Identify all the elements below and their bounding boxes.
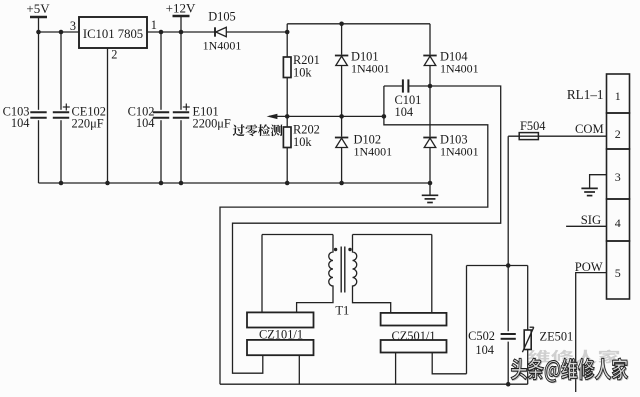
transformer T1 secondary winding [353, 235, 391, 313]
wire COM down [507, 136, 509, 331]
wire C102 top lead [160, 32, 162, 110]
wire bottom rail [220, 383, 528, 385]
node D104/D103/C101 [428, 84, 433, 89]
svg-text:220μF: 220μF [72, 117, 104, 131]
wire ground rail [39, 182, 431, 184]
svg-text:104: 104 [11, 116, 30, 130]
svg-text:104: 104 [395, 105, 414, 119]
connector cell 2 [607, 113, 630, 149]
connector cell 3 [607, 149, 630, 199]
fuse F504 [508, 133, 606, 140]
junction E101/ground rail [179, 181, 184, 186]
node D101/D102 [339, 114, 344, 119]
wire zero-cross net to bottom rail [220, 116, 488, 384]
resistor R202 [283, 127, 291, 148]
ground main [422, 195, 439, 202]
svg-text:1N4001: 1N4001 [351, 62, 390, 76]
varistor ZE501 [522, 266, 533, 385]
socket CZ501/1 lower [381, 340, 447, 353]
wire down to CZ501 pin route [466, 266, 468, 374]
wire IC pin1 to D105 [147, 31, 215, 33]
wire C101 left lead [384, 85, 403, 87]
wire C103 bottom lead [38, 120, 40, 183]
wire SIG stub [566, 225, 606, 227]
svg-text:ZE501: ZE501 [540, 330, 574, 344]
svg-text:10k: 10k [293, 135, 312, 149]
wire C102 bottom lead [160, 120, 162, 183]
wire D103 to ground [429, 148, 431, 184]
wire C502/ZE501 top net [467, 265, 528, 267]
connector cell 5 [607, 241, 630, 299]
transformer T1 primary winding [297, 235, 333, 313]
socket CZ501/1 upper [381, 313, 447, 326]
connector cell 1 [607, 74, 630, 113]
wire C103 top lead [38, 32, 40, 110]
capacitor C101 [403, 79, 409, 92]
svg-text:F504: F504 [520, 119, 545, 133]
junction D102/ground rail [339, 181, 344, 186]
wire C101 right lead [408, 85, 430, 87]
wire jog up [286, 24, 288, 32]
socket CZ101/1 lower [247, 340, 314, 355]
wire E101 bottom lead [180, 120, 182, 183]
watermark 头条@维修人家 [512, 359, 629, 383]
node C101 left [382, 114, 387, 119]
IC101 7805 box [79, 17, 147, 48]
wire to R202 [286, 116, 288, 127]
E101 plus sign [183, 104, 190, 111]
node C102/top [159, 30, 164, 35]
CE102 plus sign [63, 104, 70, 111]
junction CE102/ground rail [59, 181, 64, 186]
wire top DC rail [287, 23, 430, 25]
svg-text:+5V: +5V [26, 1, 50, 16]
svg-text:C502: C502 [468, 329, 495, 343]
svg-text:4: 4 [615, 216, 621, 230]
svg-text:2200μF: 2200μF [193, 117, 231, 131]
svg-text:POW: POW [575, 260, 603, 274]
wire +5V rail to IC pin3 [39, 31, 80, 33]
svg-text:1N4001: 1N4001 [354, 145, 393, 159]
svg-text:10k: 10k [293, 66, 312, 80]
node C502 top net [506, 263, 511, 268]
capacitor E101 [173, 112, 189, 117]
diode D102 [335, 138, 348, 148]
node +12V/E101 [179, 30, 184, 35]
transformer core [341, 247, 345, 293]
phase dot secondary [348, 248, 351, 251]
wire D105 to node [226, 31, 287, 33]
junction D103/ground rail [428, 181, 433, 186]
svg-text:2: 2 [615, 127, 621, 141]
svg-text:COM: COM [575, 122, 604, 136]
wire R202 to ground rail [286, 148, 288, 184]
node R201/R202 [285, 114, 290, 119]
svg-text:+12V: +12V [166, 1, 196, 16]
capacitor C102 [153, 112, 169, 117]
wire CZ501 pin to bottom rail [395, 353, 397, 385]
svg-text:2: 2 [111, 48, 117, 62]
wire to ground symbol [429, 183, 431, 195]
svg-text:3: 3 [615, 170, 621, 184]
node +5V/C103 [36, 30, 41, 35]
node R201 top [285, 30, 290, 35]
wire primary top to CZ101 [261, 235, 263, 313]
wire R201 to mid node [286, 78, 288, 117]
wire top rail to D104 [429, 24, 431, 55]
wire C502 bottom [507, 342, 509, 385]
ground pin3 [581, 188, 597, 195]
svg-text:3: 3 [70, 19, 76, 33]
node D101 top [339, 22, 344, 27]
socket CZ101/1 upper [247, 312, 314, 327]
junction IC pin2/ground rail [105, 181, 110, 186]
wire secondary top [353, 234, 432, 236]
svg-text:T1: T1 [335, 304, 349, 318]
diode D103 [423, 138, 436, 148]
resistor R201 [283, 57, 291, 78]
svg-text:SIG: SIG [581, 213, 601, 227]
wire to D101 [341, 24, 343, 55]
diode D104 [423, 56, 436, 66]
wire secondary top to CZ501 [431, 235, 433, 313]
wire POW down to edge [576, 273, 607, 392]
svg-text:1N4001: 1N4001 [203, 39, 242, 53]
capacitor CE102 [53, 112, 69, 117]
watermark ghost grey [528, 350, 620, 364]
wire C101 to mid node [383, 86, 385, 116]
svg-text:104: 104 [475, 343, 494, 357]
diode D101 [335, 56, 348, 66]
label 过零检测 [233, 124, 283, 136]
node bottom rail/COM [506, 382, 511, 387]
svg-text:104: 104 [136, 116, 155, 130]
svg-text:1: 1 [615, 89, 621, 103]
svg-text:5: 5 [615, 266, 621, 280]
wire primary top [262, 234, 333, 236]
node CE102 [59, 30, 64, 35]
svg-text:1N4001: 1N4001 [440, 62, 479, 76]
wire CE102 top lead [60, 32, 62, 110]
svg-text:IC101 7805: IC101 7805 [83, 27, 143, 41]
svg-text:RL1–1: RL1–1 [567, 87, 604, 102]
svg-text:1N4001: 1N4001 [440, 145, 479, 159]
wire IC pin2 down to ground rail [107, 48, 109, 183]
wire rectifier node to CZ101 pin [233, 86, 501, 373]
zero-cross arrow [267, 114, 384, 119]
phase dot primary [334, 248, 337, 251]
wire CE102 bottom lead [60, 120, 62, 183]
diode D105 [215, 27, 226, 36]
connector cell 4 [607, 199, 630, 241]
capacitor C103 [30, 112, 46, 117]
capacitor C502 [501, 334, 516, 339]
wire D102 to ground rail [341, 148, 343, 184]
+12V supply [166, 1, 196, 33]
svg-text:D105: D105 [208, 10, 236, 24]
wire E101 top lead [180, 32, 182, 110]
wire to R201 [286, 32, 288, 57]
wire pin3 to ground [590, 175, 607, 189]
junction C102/ground rail [159, 181, 164, 186]
wire CZ501 pin to C502 net [432, 353, 466, 374]
+5V supply [26, 1, 50, 32]
junction R202/ground rail [285, 181, 290, 186]
svg-text:1: 1 [151, 18, 157, 32]
wire D101 to mid node [341, 66, 343, 117]
wire to D103 [429, 86, 431, 137]
wire to D102 [341, 116, 343, 136]
wire D104 to node [429, 66, 431, 87]
wire CZ101 pin to bottom rail [298, 355, 300, 384]
